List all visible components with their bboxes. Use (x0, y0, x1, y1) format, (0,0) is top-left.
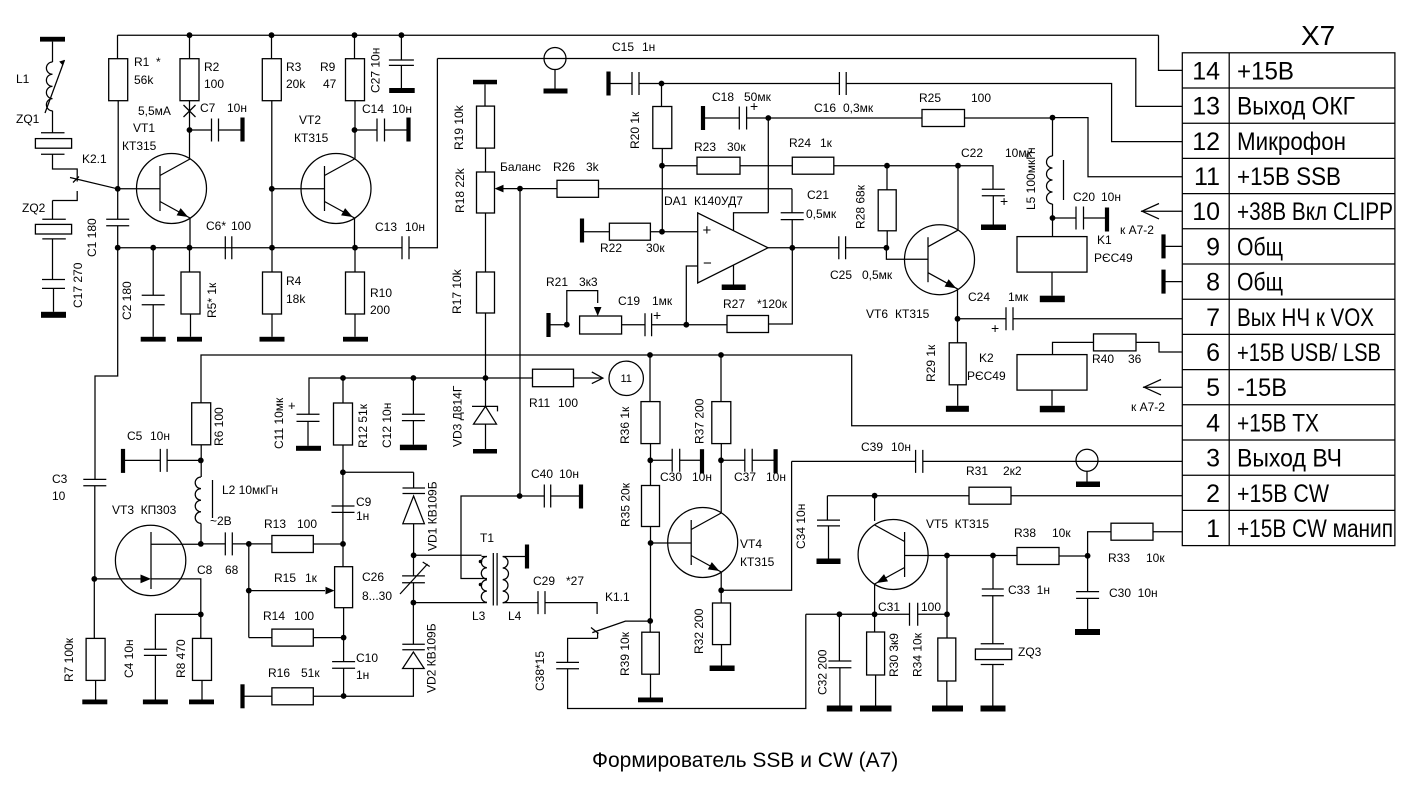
svg-text:C29: C29 (533, 574, 555, 588)
wire base VT4 (650, 527, 652, 621)
node (718, 352, 724, 358)
svg-text:R23: R23 (694, 140, 716, 154)
capacitor C4 (155, 614, 200, 649)
svg-text:ZQ3: ZQ3 (1018, 645, 1042, 659)
op-amp DA1 (698, 213, 768, 283)
tab 11 (609, 361, 643, 395)
node (1050, 215, 1056, 221)
ground (143, 700, 168, 705)
node (411, 375, 417, 381)
transistor VT1 (137, 154, 207, 224)
capacitor C17 (42, 280, 65, 289)
svg-text:C17 270: C17 270 (71, 262, 85, 308)
wire collector VT4 (720, 460, 722, 513)
wire (485, 213, 487, 272)
wire (875, 675, 877, 706)
svg-text:R11: R11 (529, 396, 550, 410)
resistor R16 (245, 695, 272, 697)
resistor R24 (792, 157, 834, 174)
capacitor C33 (992, 556, 994, 590)
wire (747, 117, 769, 119)
wire gate VT3 (94, 578, 146, 580)
svg-text:к А7-2: к А7-2 (1131, 400, 1165, 414)
ground (946, 406, 969, 412)
wire collector VT1 (189, 130, 191, 159)
svg-text:R29 1к: R29 1к (924, 344, 938, 382)
wire (94, 486, 96, 579)
capacitor C30 (650, 459, 672, 461)
capacitor C5 (125, 459, 160, 461)
svg-text:11: 11 (620, 373, 631, 385)
svg-text:C8: C8 (197, 563, 213, 577)
svg-text:R34 10к: R34 10к (910, 632, 924, 677)
wire (886, 231, 888, 248)
terminal (700, 449, 704, 473)
wire R31 to pin2 (1011, 495, 1182, 497)
terminal (1105, 208, 1109, 232)
svg-text:+: + (1000, 193, 1008, 209)
wire rail-bottom (118, 226, 402, 248)
relay K1 (1052, 218, 1054, 237)
svg-text:C1 180: C1 180 (85, 218, 99, 257)
svg-text:C27 10н: C27 10н (369, 48, 383, 93)
svg-text:Выход ОКГ: Выход ОКГ (1237, 93, 1355, 121)
wire (52, 201, 54, 280)
wire R25 to pin11 (965, 117, 1053, 119)
node (411, 600, 417, 606)
svg-text:Общ: Общ (1237, 269, 1283, 297)
ground (260, 337, 285, 342)
wire (1053, 342, 1094, 354)
switch K2.1 (70, 177, 117, 189)
svg-text:3: 3 (1206, 445, 1220, 473)
wire feedback (769, 248, 793, 324)
capacitor C15 (611, 83, 633, 85)
resistor R23 (662, 165, 697, 167)
capacitor C40 (520, 495, 545, 497)
resistor R14 (249, 637, 272, 639)
svg-text:R1 *: R1 * (134, 55, 161, 69)
svg-text:ZQ1: ZQ1 (16, 112, 40, 126)
svg-text:X7: X7 (1301, 20, 1335, 51)
wire balance down (519, 189, 521, 496)
transformer T1 winding L4 (503, 557, 509, 603)
svg-text:L1: L1 (16, 72, 30, 86)
svg-text:R9: R9 (320, 60, 336, 74)
wire (485, 148, 487, 172)
resistor R8 (200, 614, 202, 638)
wire (152, 305, 154, 337)
ground (1040, 406, 1065, 413)
svg-text:+15В: +15В (1237, 57, 1294, 85)
svg-text:8: 8 (1206, 269, 1220, 297)
ground (932, 706, 963, 712)
wire (767, 118, 769, 213)
svg-text:R13: R13 (264, 517, 286, 531)
terminal pin8 (1161, 270, 1165, 294)
capacitor C29 (508, 602, 538, 604)
svg-text:+38В Вкл CLIPP: +38В Вкл CLIPP (1237, 198, 1393, 226)
wire (200, 445, 202, 477)
svg-text:+15В CW: +15В CW (1237, 480, 1329, 508)
wire op-amp gnd (733, 265, 735, 284)
switch K1.1 (591, 621, 650, 633)
svg-text:R28 68к: R28 68к (854, 184, 868, 229)
terminal (121, 449, 125, 473)
wire (574, 377, 603, 379)
resistor R38 (1017, 548, 1059, 565)
svg-text:9: 9 (1206, 233, 1220, 261)
svg-text:VT1: VT1 (133, 121, 155, 135)
potentiometer R21 (580, 316, 622, 334)
ground (817, 559, 841, 565)
node output (789, 245, 795, 251)
ground (189, 700, 214, 705)
ground (1040, 296, 1065, 303)
svg-text:C20: C20 (1073, 190, 1095, 204)
svg-text:10н: 10н (559, 467, 579, 481)
node balance (517, 186, 523, 192)
resistor R13 (249, 543, 272, 545)
svg-text:ZQ2: ZQ2 (22, 201, 46, 215)
ground (296, 446, 321, 451)
wire R17 to bus2 (485, 313, 487, 378)
ground (860, 706, 892, 712)
wire (117, 101, 119, 189)
wire R26 to C21 (599, 188, 793, 190)
svg-text:100: 100 (204, 77, 224, 91)
svg-text:+15В ТХ: +15В ТХ (1237, 409, 1319, 437)
wire emitter VT5 (874, 584, 876, 614)
wire (313, 543, 343, 545)
wire pin14 (1159, 35, 1183, 70)
wire (740, 165, 792, 167)
svg-text:C31: C31 (878, 600, 900, 614)
capacitor C16 (839, 72, 846, 95)
ground (473, 449, 497, 454)
svg-text:C33 1н: C33 1н (1008, 583, 1050, 597)
transistor VT6 (905, 225, 975, 295)
resistor R6 (192, 403, 211, 445)
wire (1051, 272, 1053, 296)
svg-text:Формирователь SSB и CW (А7): Формирователь SSB и CW (А7) (592, 749, 898, 772)
wire (650, 674, 652, 697)
svg-text:30к: 30к (646, 241, 665, 255)
arrow to A7-2 pin5 (1143, 386, 1182, 388)
capacitor C37 (721, 459, 745, 461)
crystal ZQ1 (41, 133, 65, 155)
svg-text:Выход ВЧ: Выход ВЧ (1237, 445, 1342, 473)
wire (1051, 390, 1053, 406)
svg-text:10н: 10н (150, 429, 170, 443)
arrow to A7-2 pin10 (1141, 210, 1182, 212)
resistor R19 (484, 84, 486, 106)
svg-text:VT6: VT6 (866, 307, 888, 321)
wire (342, 445, 344, 472)
capacitor C27 (400, 35, 402, 60)
svg-text:VT2: VT2 (299, 113, 321, 127)
ground (40, 37, 65, 42)
capacitor C21 (791, 189, 793, 213)
wire C24 to pin7 (1013, 318, 1182, 320)
svg-text:Общ: Общ (1237, 233, 1283, 261)
svg-text:56k: 56k (134, 73, 154, 87)
resistor R33 (1088, 532, 1111, 556)
resistor R12 (342, 378, 344, 403)
svg-text:11: 11 (1194, 163, 1220, 191)
svg-text:R36 1к: R36 1к (618, 406, 632, 444)
capacitor C31 (875, 613, 910, 615)
svg-text:+: + (288, 398, 296, 413)
svg-text:*27: *27 (566, 574, 584, 588)
wire R33 to pin1 (1153, 531, 1182, 533)
svg-text:C10: C10 (356, 651, 378, 665)
terminal (579, 485, 583, 509)
svg-text:C26: C26 (362, 570, 384, 584)
ground (177, 337, 202, 342)
ground (473, 80, 497, 85)
resistor R35 (642, 486, 660, 527)
node (683, 322, 689, 328)
wire collector VT6 (957, 166, 959, 231)
svg-text:C5: C5 (127, 429, 143, 443)
svg-text:13: 13 (1192, 93, 1220, 121)
potentiometer R15 (342, 544, 344, 567)
svg-text:Микрофон: Микрофон (1237, 128, 1346, 156)
varicap VD2 (412, 603, 414, 645)
wire (53, 288, 55, 311)
inductor L5 (1052, 118, 1054, 156)
node (341, 693, 347, 699)
svg-text:DA1 К140УД7: DA1 К140УД7 (664, 194, 743, 208)
svg-text:+: + (653, 307, 661, 323)
svg-text:30к: 30к (727, 140, 746, 154)
svg-text:C30: C30 (660, 470, 682, 484)
svg-text:1н: 1н (356, 668, 369, 682)
wire C13 to OKG line (409, 59, 437, 248)
svg-text:K2.1: K2.1 (82, 152, 107, 166)
svg-text:VT5 КТ315: VT5 КТ315 (926, 517, 989, 531)
svg-text:R24: R24 (789, 136, 811, 150)
resistor R22 (584, 231, 609, 233)
resistor R20 (661, 84, 663, 107)
node (246, 541, 252, 547)
svg-text:100: 100 (558, 396, 578, 410)
svg-text:10н: 10н (392, 102, 412, 116)
svg-text:VT4: VT4 (740, 537, 762, 551)
resistor R10 (354, 248, 356, 272)
capacitor C2 (152, 248, 154, 296)
node (647, 618, 653, 624)
svg-text:68: 68 (225, 563, 239, 577)
terminal (240, 118, 244, 142)
wire (720, 444, 722, 461)
svg-text:C11 10мк: C11 10мк (272, 397, 286, 449)
capacitor C12 (412, 378, 414, 414)
wire L3 top (414, 554, 482, 556)
svg-text:5: 5 (1206, 374, 1220, 402)
svg-text:10н: 10н (405, 220, 425, 234)
svg-text:C2 180: C2 180 (120, 281, 134, 320)
wire (957, 385, 959, 406)
svg-text:+: + (750, 98, 758, 114)
wire drain VT3 (151, 543, 201, 545)
svg-text:C14: C14 (362, 102, 384, 116)
wire (650, 444, 652, 486)
svg-text:C30 10н: C30 10н (1109, 586, 1158, 600)
ground (82, 700, 107, 705)
svg-text:+: + (991, 320, 999, 336)
node (517, 493, 523, 499)
capacitor C25 (839, 236, 846, 259)
capacitor C20 (1053, 217, 1077, 219)
svg-text:R27: R27 (723, 297, 745, 311)
wire (958, 166, 993, 190)
arrow (592, 372, 603, 384)
svg-text:VD1 КВ109Б: VD1 КВ109Б (425, 481, 439, 551)
svg-text:VD2 КВ109Б: VD2 КВ109Б (425, 623, 439, 693)
svg-text:R32 200: R32 200 (692, 608, 706, 654)
svg-text:K2: K2 (979, 351, 994, 365)
resistor R4 (271, 248, 273, 272)
capacitor C8 (201, 543, 226, 545)
capacitor C14 (355, 129, 378, 131)
svg-text:6: 6 (1206, 339, 1220, 367)
svg-text:10н: 10н (1101, 190, 1121, 204)
svg-text:100: 100 (294, 609, 314, 623)
crystal ZQ3 (981, 644, 1004, 665)
varicap VD1 (413, 472, 415, 488)
svg-text:C9: C9 (356, 495, 372, 509)
node (187, 127, 193, 133)
capacitor C38 (568, 632, 598, 662)
svg-text:1: 1 (1206, 515, 1220, 543)
svg-text:R15: R15 (274, 571, 296, 585)
wire (201, 680, 203, 699)
svg-text:C24: C24 (968, 290, 990, 304)
relay K2 (1017, 355, 1087, 391)
svg-text:R4: R4 (286, 274, 302, 288)
svg-text:100: 100 (297, 517, 317, 531)
inductor L2 (195, 477, 201, 523)
resistor R3 (271, 35, 273, 59)
svg-text:L3: L3 (472, 609, 486, 623)
test point (1076, 449, 1098, 471)
transistor VT5 (858, 520, 928, 590)
wire VT4 to C39 (721, 461, 791, 590)
wire emitter VT4 (720, 572, 722, 590)
svg-text:к А7-2: к А7-2 (1120, 223, 1154, 237)
resistor R25 (768, 117, 922, 119)
wire (1059, 555, 1088, 557)
svg-text:100: 100 (921, 600, 941, 614)
wire (200, 523, 202, 544)
transistor VT4 (668, 508, 738, 578)
capacitor C7 (190, 129, 212, 131)
wire (661, 149, 663, 232)
svg-text:C16: C16 (814, 101, 836, 115)
svg-text:K1: K1 (1097, 233, 1112, 247)
svg-text:20k: 20k (286, 77, 306, 91)
transistor VT2 (301, 154, 371, 224)
wire (313, 695, 343, 697)
ground (1075, 629, 1100, 635)
ground (389, 88, 415, 93)
svg-text:K1.1: K1.1 (605, 590, 630, 604)
resistor R1 (117, 35, 119, 59)
svg-text:R7 100к: R7 100к (62, 637, 76, 682)
wire (52, 111, 54, 133)
wire (95, 680, 97, 699)
svg-text:КТ315: КТ315 (294, 131, 329, 145)
resistor R26 (520, 188, 557, 190)
ground (827, 706, 853, 712)
svg-text:10к: 10к (1052, 526, 1071, 540)
ground (981, 225, 1006, 231)
svg-text:R37 200: R37 200 (693, 398, 707, 444)
terminal (580, 219, 584, 243)
svg-text:C37: C37 (734, 470, 756, 484)
svg-text:10к: 10к (1146, 551, 1165, 565)
capacitor C10 (343, 638, 345, 662)
svg-text:100: 100 (231, 219, 251, 233)
node (483, 375, 489, 381)
svg-text:РЄС49: РЄС49 (967, 369, 1006, 383)
wire L4 top (508, 556, 525, 558)
wire (342, 472, 344, 544)
terminal pin9 (1161, 234, 1165, 258)
resistor R32 (720, 590, 722, 603)
ground (981, 706, 1006, 712)
wire (343, 608, 345, 638)
node (659, 81, 665, 87)
node (411, 552, 417, 558)
svg-text:3k: 3k (586, 160, 600, 174)
svg-text:4: 4 (1206, 409, 1220, 437)
wire output (768, 247, 839, 249)
svg-text:8...30: 8...30 (362, 589, 392, 603)
svg-text:VD3 Д814Г: VD3 Д814Г (451, 385, 465, 447)
wire base VT2 (272, 101, 325, 189)
svg-text:47: 47 (323, 77, 337, 91)
svg-text:1к: 1к (820, 136, 833, 150)
wire plus input (650, 231, 697, 233)
terminal (406, 118, 410, 142)
capacitor C19 (622, 324, 645, 326)
capacitor C32 (838, 614, 840, 661)
svg-text:12: 12 (1192, 128, 1220, 156)
svg-text:C6*: C6* (206, 219, 226, 233)
svg-text:КТ315: КТ315 (895, 307, 930, 321)
terminal (701, 106, 705, 130)
svg-text:T1: T1 (480, 531, 494, 545)
svg-text:2к2: 2к2 (1003, 464, 1022, 478)
wire op-amp top pin (734, 213, 769, 231)
resistor R37 (720, 355, 722, 402)
svg-text:R2: R2 (204, 60, 220, 74)
capacitor C13 (402, 236, 409, 259)
svg-text:R39 10к: R39 10к (618, 631, 632, 676)
svg-text:L2 10мкГн: L2 10мкГн (222, 483, 278, 497)
wire (313, 637, 343, 639)
svg-text:R8 470: R8 470 (174, 639, 188, 678)
resistor R39 (649, 621, 651, 632)
terminal (774, 449, 778, 473)
wire base VT5 (905, 555, 1018, 557)
ground (343, 337, 368, 342)
resistor R11 (533, 369, 574, 387)
svg-text:КТ315: КТ315 (740, 555, 775, 569)
